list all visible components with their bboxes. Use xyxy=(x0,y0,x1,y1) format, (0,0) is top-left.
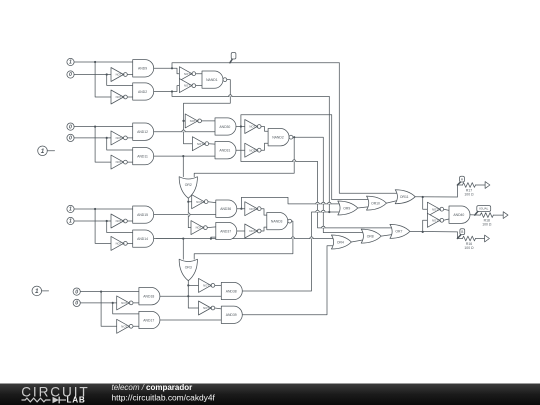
wire xyxy=(95,209,111,243)
svg-text:OR3: OR3 xyxy=(185,266,192,270)
svg-text:AND2: AND2 xyxy=(138,90,147,94)
svg-text:NOT12: NOT12 xyxy=(197,142,206,146)
inverter NOT22 xyxy=(199,278,215,292)
svg-text:NOT20: NOT20 xyxy=(190,119,199,123)
wire xyxy=(182,156,184,177)
svg-text:NOT27: NOT27 xyxy=(249,229,258,233)
inverter NOT14 xyxy=(427,202,443,216)
svg-text:·: · xyxy=(233,54,234,58)
wire xyxy=(444,219,449,220)
junction n9 xyxy=(240,208,242,210)
wire xyxy=(154,131,215,133)
and-gate AND31 xyxy=(215,142,236,159)
svg-text:NOT29: NOT29 xyxy=(116,242,125,246)
svg-text:100 Ω: 100 Ω xyxy=(464,246,474,250)
junction n15 xyxy=(187,295,189,297)
wire xyxy=(476,238,485,240)
logo text LAB xyxy=(67,396,86,405)
svg-text:OR4: OR4 xyxy=(337,240,344,244)
wire xyxy=(172,63,339,69)
inverter NOT23 xyxy=(199,301,215,315)
wire xyxy=(241,197,341,208)
wire xyxy=(351,240,364,242)
or-gate OR4 xyxy=(331,235,351,249)
wire xyxy=(236,126,245,128)
inverter NOT27 xyxy=(245,224,261,238)
wire xyxy=(156,238,183,240)
wire xyxy=(187,198,189,227)
wire xyxy=(160,319,221,321)
or-gate OR11 xyxy=(395,190,415,204)
wire xyxy=(95,62,111,97)
wire xyxy=(101,292,117,327)
svg-text:NOT9: NOT9 xyxy=(116,160,124,164)
inverter NOT26 xyxy=(191,221,207,235)
svg-text:NOT24: NOT24 xyxy=(196,200,205,204)
wire xyxy=(236,149,245,151)
svg-text:OR7: OR7 xyxy=(395,230,402,234)
and-gate AND37 xyxy=(216,222,237,239)
svg-text:NOT22: NOT22 xyxy=(203,284,212,288)
inverter NOT19 xyxy=(111,68,127,82)
wire xyxy=(95,127,111,163)
svg-text:NAND2: NAND2 xyxy=(272,135,284,139)
wire xyxy=(261,143,268,150)
svg-text:AND12: AND12 xyxy=(137,130,148,134)
inverter NOT20 xyxy=(185,114,201,128)
flag A xyxy=(457,176,464,185)
svg-text:1: 1 xyxy=(35,288,39,295)
and-gate AND12 xyxy=(133,123,154,140)
inverter NOT24 xyxy=(192,195,208,209)
wire xyxy=(293,137,365,232)
wire xyxy=(160,295,221,297)
wire xyxy=(188,307,198,309)
wire hop xyxy=(322,202,325,204)
wire xyxy=(208,201,216,204)
svg-text:NOT13: NOT13 xyxy=(249,148,258,152)
and-gate AND30 xyxy=(215,118,236,135)
wire xyxy=(80,291,139,293)
wire xyxy=(387,200,399,203)
and-gate AND15 xyxy=(133,206,154,223)
junction n12 xyxy=(328,211,330,213)
inverter NOT28 xyxy=(111,214,127,228)
and-gate AND18 xyxy=(139,288,160,305)
wire xyxy=(261,209,267,215)
wire xyxy=(154,155,215,157)
wire hop xyxy=(316,210,319,212)
wire xyxy=(242,246,335,315)
wire xyxy=(107,221,133,233)
svg-text:NOT28: NOT28 xyxy=(116,219,125,223)
junction n8 xyxy=(210,238,212,240)
svg-text:NOT30: NOT30 xyxy=(121,301,130,305)
junction n4 xyxy=(182,155,184,157)
wire xyxy=(241,127,318,162)
and-gate AND38 xyxy=(221,282,242,299)
svg-text:LAB: LAB xyxy=(67,396,86,405)
wire xyxy=(127,74,132,76)
wire xyxy=(261,227,267,231)
svg-text:http://circuitlab.com/cakdy4f: http://circuitlab.com/cakdy4f xyxy=(112,392,216,402)
wire xyxy=(47,150,54,152)
node G4 input A xyxy=(73,288,80,295)
junction G3-b xyxy=(106,220,108,222)
wire xyxy=(237,208,245,210)
junction G1-a xyxy=(94,61,96,63)
wire xyxy=(318,162,394,228)
wire xyxy=(188,227,191,229)
junction n5 xyxy=(240,125,242,127)
wire xyxy=(154,67,172,69)
junction n10 xyxy=(182,238,184,240)
node G2 input B xyxy=(67,134,74,141)
node G3 input A xyxy=(67,205,74,212)
svg-text:1: 1 xyxy=(69,219,72,225)
and-gate AND14 xyxy=(133,230,154,247)
wire xyxy=(381,234,393,236)
svg-text:NOT26: NOT26 xyxy=(196,226,205,230)
svg-text:AND39: AND39 xyxy=(226,313,237,317)
svg-text:B: B xyxy=(461,230,463,234)
svg-text:NOT8: NOT8 xyxy=(116,136,124,140)
junction n13 xyxy=(422,196,424,198)
wire xyxy=(242,212,341,291)
svg-text:1: 1 xyxy=(69,207,72,213)
junction G1-b xyxy=(106,73,108,75)
wire xyxy=(133,325,139,327)
junction n1 xyxy=(171,67,173,69)
wire xyxy=(215,307,222,310)
inverter NOT30 xyxy=(117,296,133,310)
resistor R16 xyxy=(463,236,476,250)
junction G4-b xyxy=(112,302,114,304)
node G2 input A xyxy=(67,123,74,130)
svg-text:AND38: AND38 xyxy=(226,289,237,293)
wire xyxy=(194,221,293,259)
wire xyxy=(188,284,198,286)
wire hop xyxy=(316,202,319,204)
and-gate AND17 xyxy=(139,311,160,328)
junction G2-b xyxy=(106,137,108,139)
svg-text:OR8: OR8 xyxy=(367,234,374,238)
wire xyxy=(107,75,133,86)
wire xyxy=(470,214,480,216)
wire xyxy=(358,207,370,208)
wire xyxy=(172,92,329,97)
wire xyxy=(80,302,116,304)
flag probe S xyxy=(230,53,236,63)
wire xyxy=(74,74,111,76)
wire xyxy=(196,85,202,87)
wire hop xyxy=(182,130,185,132)
svg-text:0: 0 xyxy=(75,301,78,307)
inverter NOT18 xyxy=(111,90,127,104)
wire xyxy=(423,197,428,209)
wire xyxy=(107,138,133,150)
svg-text:AND18: AND18 xyxy=(143,294,154,298)
wire xyxy=(207,226,216,229)
wire xyxy=(74,220,111,222)
inverter NOT9 xyxy=(111,155,127,169)
wire xyxy=(154,214,216,216)
wire xyxy=(154,238,335,240)
wire xyxy=(127,161,132,163)
junction n14 xyxy=(422,231,424,233)
svg-text:AND17: AND17 xyxy=(143,318,154,322)
wire xyxy=(172,86,179,92)
wire xyxy=(184,120,186,122)
wire xyxy=(423,220,428,232)
wire xyxy=(127,96,132,98)
pin OUT-IGUAL xyxy=(503,212,508,219)
wire xyxy=(74,61,133,63)
svg-text:OR9: OR9 xyxy=(343,206,350,210)
and-gate AND11 xyxy=(133,147,154,164)
wire xyxy=(415,196,457,198)
junction n11 xyxy=(187,284,189,286)
wire xyxy=(74,126,133,128)
node G1 input A xyxy=(67,58,74,65)
CircuitLab logo text CIRCUIT xyxy=(21,385,89,400)
pin OUT-B xyxy=(485,235,490,242)
svg-text:NOT31: NOT31 xyxy=(121,324,130,328)
wire hop xyxy=(310,237,313,239)
svg-text:0: 0 xyxy=(69,72,72,78)
logo resistor zigzag and diode xyxy=(22,397,67,404)
svg-text:1: 1 xyxy=(69,60,72,66)
resistor R18 xyxy=(480,213,493,227)
svg-text:AND40: AND40 xyxy=(453,213,464,217)
wire xyxy=(261,127,268,132)
svg-text:AND36: AND36 xyxy=(220,207,231,211)
wire xyxy=(127,137,132,139)
footer url xyxy=(112,392,216,402)
or-gate OR3 xyxy=(179,259,197,281)
node G3 input B xyxy=(67,217,74,224)
wire xyxy=(182,239,184,260)
or-gate OR8 xyxy=(361,229,381,243)
junction n6 xyxy=(293,136,295,138)
and-gate AND40 xyxy=(449,206,470,223)
inverter NOT12 xyxy=(192,137,208,151)
wire xyxy=(184,80,231,144)
wire xyxy=(74,208,133,210)
svg-text:NOT14: NOT14 xyxy=(432,207,441,211)
svg-text:100 Ω: 100 Ω xyxy=(464,193,474,197)
svg-text:OR2: OR2 xyxy=(185,183,192,187)
svg-text:NOT21: NOT21 xyxy=(249,125,258,129)
and-gate AND9 xyxy=(133,60,154,77)
svg-text:NOT19: NOT19 xyxy=(116,73,125,77)
or-gate OR9 xyxy=(338,201,358,215)
svg-text:100 Ω: 100 Ω xyxy=(482,223,492,227)
inverter NOT13 xyxy=(245,143,261,157)
svg-text:IGUAL: IGUAL xyxy=(479,207,488,211)
svg-text:comparador: comparador xyxy=(146,383,192,392)
svg-text:NAND1: NAND1 xyxy=(206,78,218,82)
svg-text:NOT17: NOT17 xyxy=(184,84,193,88)
wire xyxy=(133,302,139,304)
svg-text:OR11: OR11 xyxy=(400,195,409,199)
inverter NOT21 xyxy=(245,120,261,134)
wire xyxy=(332,115,370,200)
wire xyxy=(241,115,332,127)
svg-text:AND30: AND30 xyxy=(219,125,230,129)
resistor R17 xyxy=(463,183,476,197)
inverter NOT17 xyxy=(179,79,195,93)
svg-text:1: 1 xyxy=(41,148,45,155)
nand-gate NAND3 xyxy=(267,212,292,229)
svg-text:NOT23: NOT23 xyxy=(203,306,212,310)
wire hop xyxy=(322,226,325,228)
and-gate AND2 xyxy=(133,83,154,100)
or-gate OR2 xyxy=(179,177,197,199)
wire xyxy=(328,97,330,213)
junction n3 xyxy=(182,120,184,122)
wire xyxy=(209,143,215,145)
svg-text:AND37: AND37 xyxy=(220,229,231,233)
wire xyxy=(172,68,179,73)
wire hop xyxy=(229,95,232,97)
svg-text:NOT15: NOT15 xyxy=(432,218,441,222)
wire xyxy=(457,232,462,239)
junction G2-a xyxy=(94,126,96,128)
inverter NOT8 xyxy=(111,131,127,145)
wire xyxy=(237,230,245,232)
node standalone input 1b xyxy=(32,286,42,296)
inverter NOT25 xyxy=(245,202,261,216)
svg-text:0: 0 xyxy=(69,136,72,142)
node G4 input B xyxy=(73,299,80,306)
and-gate AND36 xyxy=(216,200,237,217)
svg-text:AND11: AND11 xyxy=(137,154,148,158)
wire hop xyxy=(322,210,325,212)
nand-gate NAND1 xyxy=(202,71,227,88)
wire xyxy=(444,209,449,210)
svg-text:AND9: AND9 xyxy=(138,67,147,71)
wire xyxy=(457,185,462,197)
inverter NOT15 xyxy=(427,213,443,227)
wire hop xyxy=(328,202,331,204)
flag IGUAL xyxy=(475,206,491,216)
wire xyxy=(42,290,49,292)
flag B xyxy=(457,229,464,239)
wire xyxy=(476,184,486,186)
nand-gate NAND2 xyxy=(268,129,293,146)
junction n2 xyxy=(171,90,173,92)
svg-text:AND15: AND15 xyxy=(137,213,148,217)
svg-text:NOT16: NOT16 xyxy=(184,72,193,76)
node standalone input 1a xyxy=(38,146,48,156)
wire xyxy=(127,220,132,222)
footer title xyxy=(112,383,193,392)
wire hop xyxy=(188,213,190,216)
wire hop xyxy=(291,237,294,239)
svg-text:NOT18: NOT18 xyxy=(116,95,125,99)
wire xyxy=(493,214,503,216)
wire xyxy=(188,201,191,203)
wire xyxy=(187,281,189,308)
inverter NOT29 xyxy=(111,236,127,250)
svg-text:NOT25: NOT25 xyxy=(249,207,258,211)
svg-text:telecom /: telecom / xyxy=(112,383,145,392)
wire xyxy=(211,237,216,239)
svg-text:NAND3: NAND3 xyxy=(271,219,283,223)
wire xyxy=(154,91,172,93)
wire xyxy=(74,137,111,139)
wire xyxy=(339,63,398,193)
wire xyxy=(194,137,294,177)
or-gate OR10 xyxy=(367,196,387,210)
node G1 input B xyxy=(67,71,74,78)
svg-text:OR10: OR10 xyxy=(371,201,380,205)
junction n7 xyxy=(187,201,189,203)
or-gate OR7 xyxy=(390,224,410,238)
inverter NOT31 xyxy=(117,319,133,333)
junction G4-a xyxy=(100,291,102,293)
svg-text:AND31: AND31 xyxy=(219,148,230,152)
junction G3-a xyxy=(94,208,96,210)
svg-text:0: 0 xyxy=(75,289,78,295)
wire xyxy=(113,303,139,314)
wire xyxy=(127,242,132,244)
wire xyxy=(196,73,202,75)
wire hop xyxy=(293,160,296,162)
wire xyxy=(202,120,216,122)
pin OUT-A xyxy=(485,182,490,189)
svg-text:AND14: AND14 xyxy=(137,237,148,241)
inverter NOT16 xyxy=(179,67,195,81)
and-gate AND39 xyxy=(221,306,242,323)
wire xyxy=(215,284,222,286)
wire xyxy=(410,230,458,233)
svg-text:0: 0 xyxy=(69,124,72,130)
